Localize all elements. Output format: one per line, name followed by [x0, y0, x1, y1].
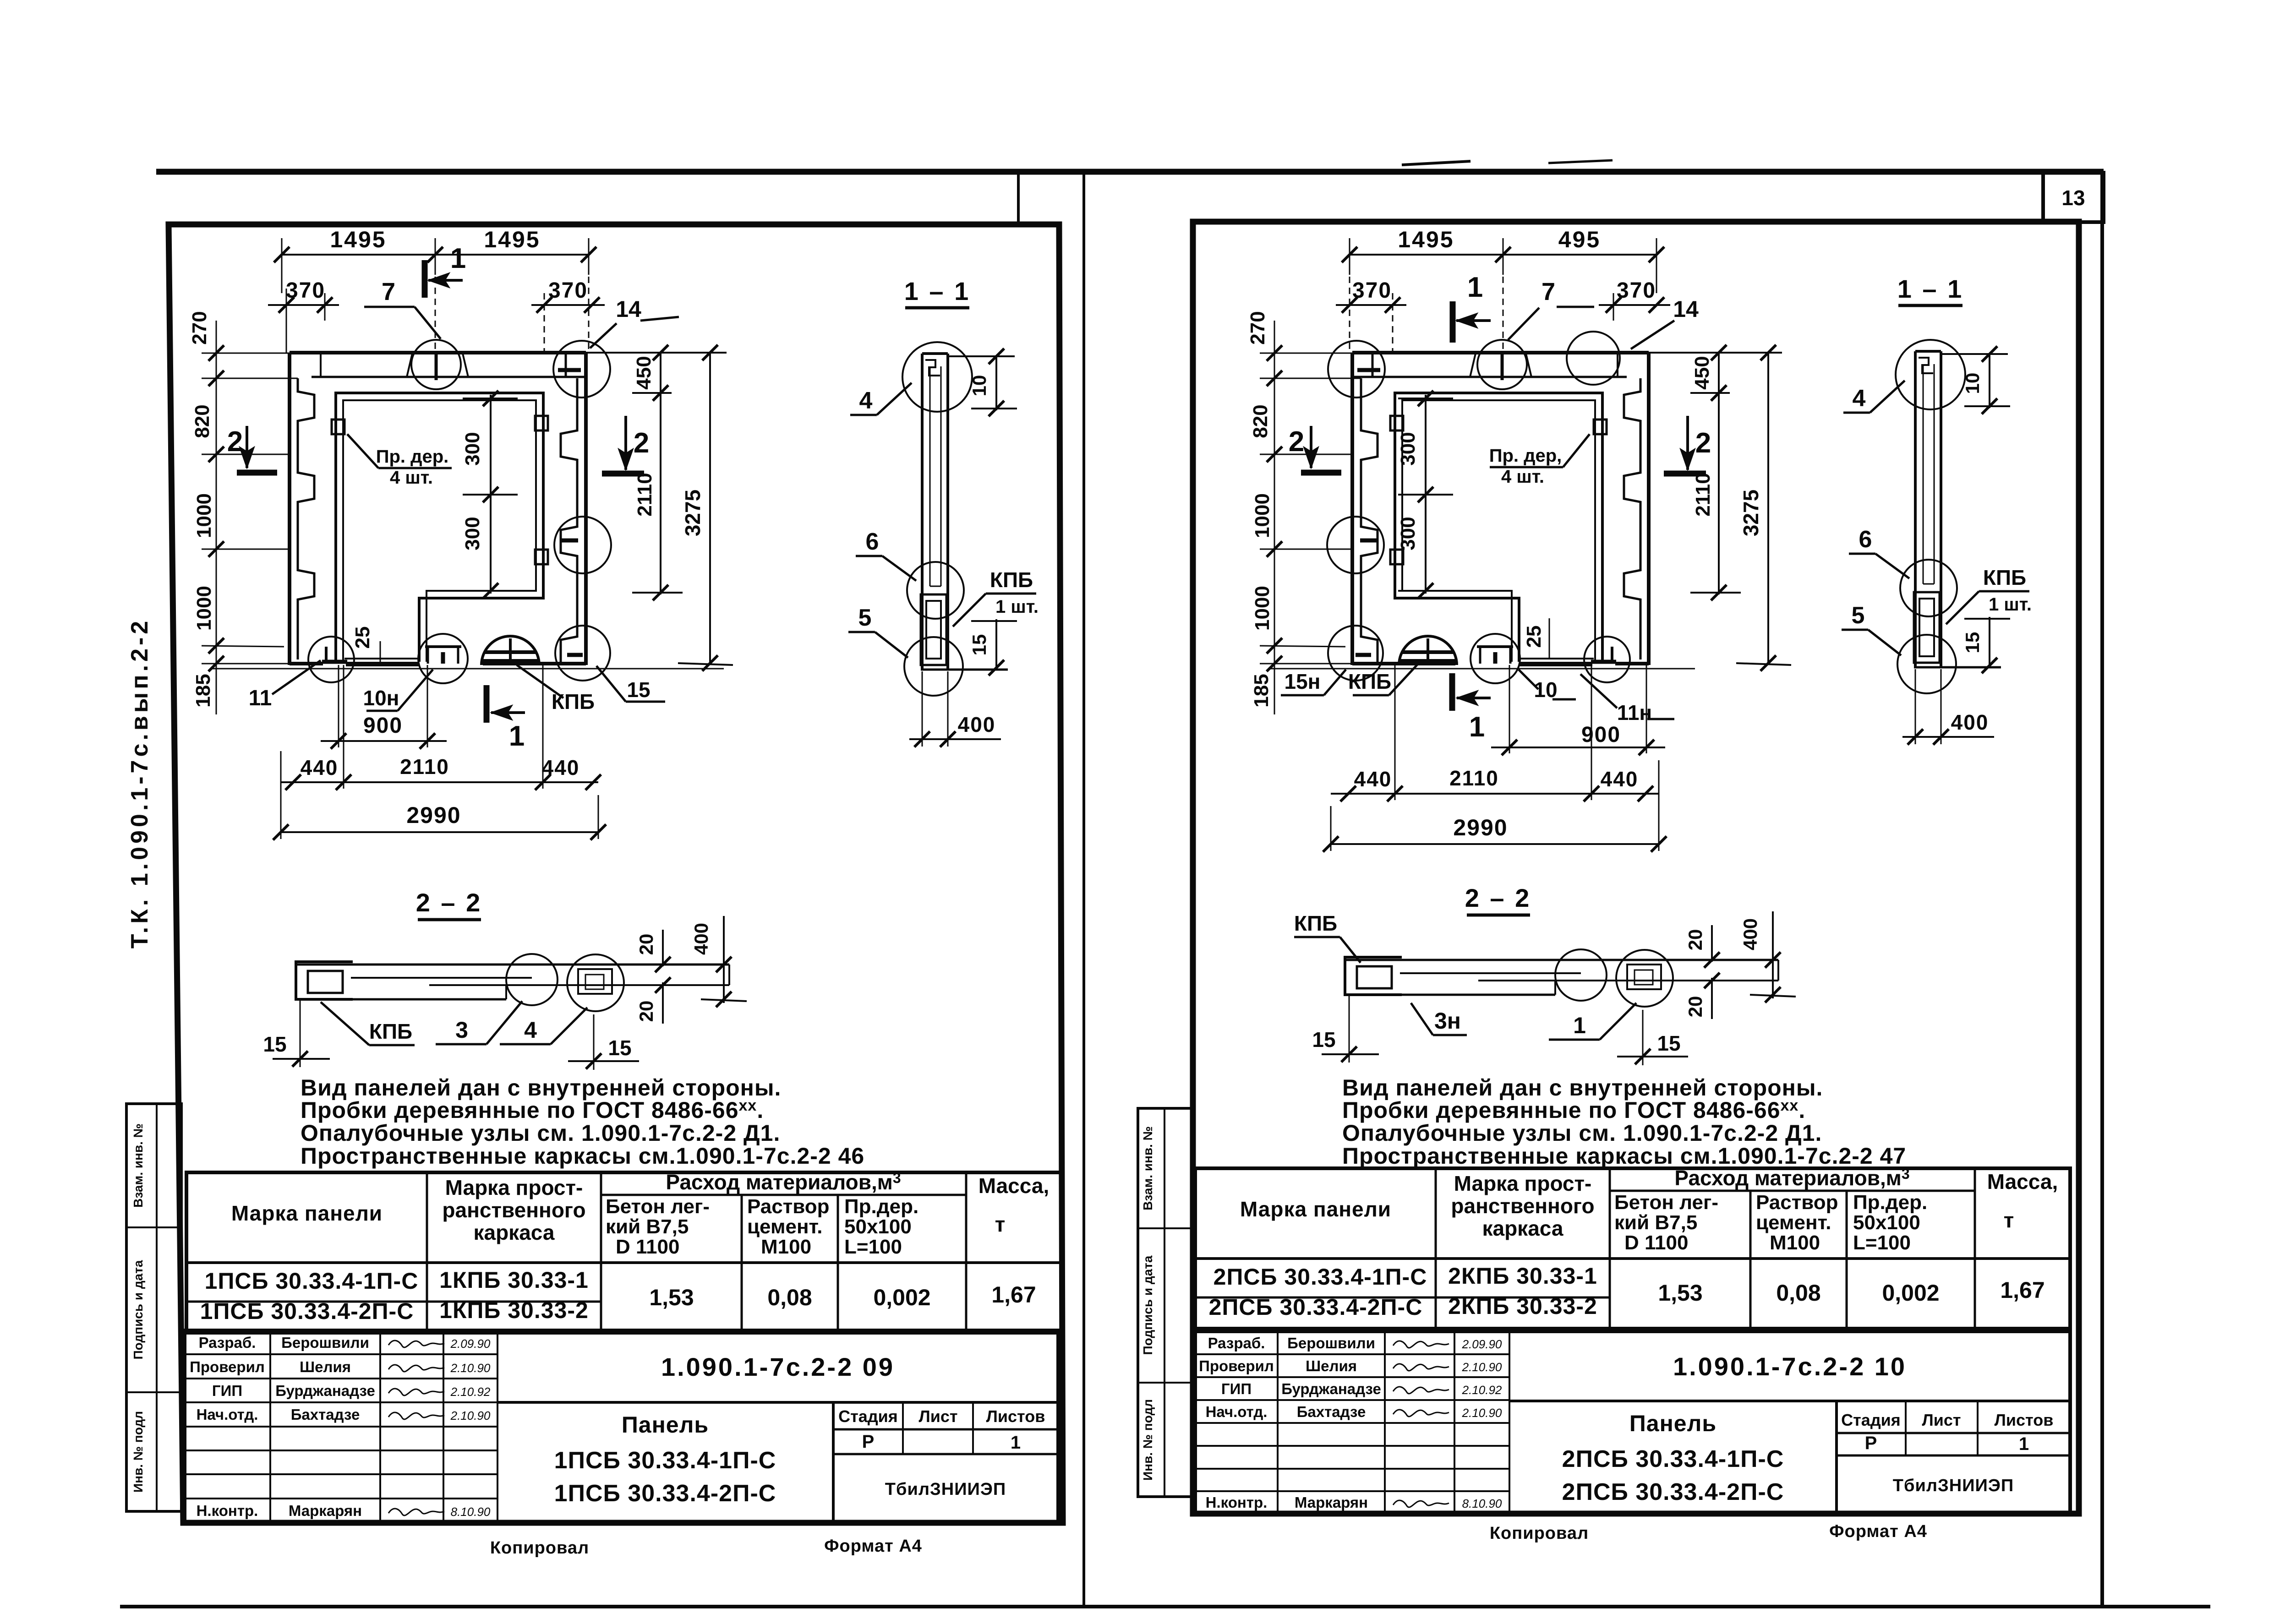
- stadia header cells: [1837, 1432, 2070, 1434]
- panel plan: wood plug top-right: [535, 416, 548, 431]
- svg-text:1: 1: [509, 720, 525, 752]
- svg-text:Проверил: Проверил: [1199, 1357, 1274, 1374]
- svg-text:1ПСБ 30.33.4-1П-С: 1ПСБ 30.33.4-1П-С: [205, 1268, 419, 1294]
- svg-text:1: 1: [1011, 1433, 1021, 1453]
- section 1-1 column outer walls: [921, 354, 924, 670]
- panel plan: opening outer contour: [336, 393, 543, 662]
- title block frame: [185, 1330, 1058, 1522]
- svg-text:3: 3: [455, 1017, 468, 1043]
- dim line 1495+1495 top: [282, 254, 589, 256]
- svg-text:Пр.дер.: Пр.дер.: [844, 1195, 918, 1218]
- svg-text:820: 820: [191, 404, 213, 438]
- dim 10 (section 1-1): [995, 356, 997, 410]
- svg-text:15: 15: [968, 634, 990, 656]
- section 1-1 bottom edge line: [1914, 666, 2001, 669]
- svg-text:25: 25: [351, 627, 374, 649]
- panel plan: corner block bottom-left: [325, 647, 328, 664]
- svg-text:1000: 1000: [1251, 493, 1274, 538]
- dim 370 left: [268, 304, 339, 306]
- svg-text:2990: 2990: [406, 802, 461, 828]
- svg-text:1КПБ 30.33-1: 1КПБ 30.33-1: [439, 1267, 589, 1293]
- svg-text:2.10.90: 2.10.90: [1462, 1406, 1502, 1420]
- section 1-1 KPB insert block: [1914, 592, 1940, 663]
- svg-text:Раствор: Раствор: [747, 1195, 829, 1218]
- left dimension column: [216, 321, 217, 714]
- panel plan: wood plug top-left: [332, 420, 344, 434]
- svg-text:Вид панелей дан с внутренней с: Вид панелей дан с внутренней стороны.: [1342, 1075, 1823, 1101]
- svg-text:8.10.90: 8.10.90: [451, 1505, 491, 1519]
- section mark 1 (bottom): [484, 685, 490, 723]
- section 2-2 bar mid line: [429, 984, 729, 986]
- panel plan: outer left edge: [1647, 353, 1651, 665]
- dim 3275 (right): [709, 353, 711, 665]
- svg-text:L=100: L=100: [1853, 1232, 1911, 1254]
- svg-text:Пр.дер.: Пр.дер.: [1853, 1191, 1927, 1214]
- sheet number box 13: [2043, 173, 2104, 222]
- section 1-1 bottom edge line: [921, 669, 1008, 671]
- svg-text:2ПСБ 30.33.4-1П-С: 2ПСБ 30.33.4-1П-С: [1562, 1446, 1784, 1472]
- materials table horizontals: [1610, 1190, 1975, 1192]
- title block doc cell: [1509, 1400, 2070, 1402]
- dim 2110 (right sheet): [1718, 393, 1720, 594]
- svg-text:Взам. инв. №: Взам. инв. №: [131, 1123, 145, 1208]
- svg-text:2110: 2110: [400, 755, 449, 779]
- title block left verticals: [269, 1330, 271, 1522]
- svg-text:185: 185: [192, 674, 214, 707]
- svg-text:Пр. дер,: Пр. дер,: [1489, 446, 1562, 466]
- svg-text:0,08: 0,08: [1776, 1280, 1820, 1306]
- section 1-1 middle detail circle: [907, 562, 964, 619]
- svg-text:ТбилЗНИИЭП: ТбилЗНИИЭП: [885, 1480, 1006, 1499]
- section 2-2 bar top line: [1345, 959, 1778, 961]
- svg-text:2 – 2: 2 – 2: [416, 888, 482, 917]
- svg-text:Подпись и дата: Подпись и дата: [1141, 1255, 1155, 1355]
- section 1-1 top corner step detail: [1919, 358, 1933, 373]
- svg-text:4: 4: [859, 387, 873, 414]
- dim 2990 (right sheet): [1331, 843, 1659, 845]
- svg-text:2: 2: [1289, 426, 1304, 458]
- svg-text:D 1100: D 1100: [616, 1236, 679, 1258]
- section 1-1 top edge line to dim: [949, 355, 1015, 357]
- svg-text:Берошвили: Берошвили: [281, 1334, 369, 1351]
- svg-text:Бурджанадзе: Бурджанадзе: [1281, 1380, 1381, 1397]
- panel plan: outer right edge: [584, 353, 588, 665]
- dim 2110 (right): [660, 393, 661, 594]
- svg-text:цемент.: цемент.: [1756, 1211, 1831, 1234]
- panel plan: flange marks under detail 7: [407, 354, 412, 377]
- svg-text:10: 10: [968, 375, 990, 397]
- section 1-1 column inner slot: [1923, 364, 1924, 584]
- svg-text:20: 20: [635, 934, 657, 955]
- svg-text:2.10.90: 2.10.90: [450, 1409, 491, 1422]
- svg-text:50х100: 50х100: [1853, 1211, 1920, 1234]
- panel plan: detail circle 18 (right edge): [1327, 517, 1384, 573]
- svg-text:Марка прост-: Марка прост-: [445, 1176, 583, 1199]
- panel plan: inner top flange line: [1352, 376, 1627, 378]
- panel plan: corner circle bottom-right: [555, 626, 610, 681]
- svg-text:25: 25: [1523, 626, 1545, 648]
- svg-text:900: 900: [1581, 723, 1621, 747]
- svg-text:185: 185: [1250, 674, 1273, 707]
- svg-text:Бетон лег-: Бетон лег-: [606, 1195, 710, 1218]
- svg-text:Бетон лег-: Бетон лег-: [1614, 1191, 1718, 1214]
- svg-text:Пространственные каркасы см.1.: Пространственные каркасы см.1.090.1-7с.2…: [301, 1143, 864, 1169]
- panel plan: opening outer contour: [1395, 393, 1602, 662]
- dim 20 lower (2-2): [1711, 978, 1713, 1019]
- svg-text:2ПСБ 30.33.4-2П-С: 2ПСБ 30.33.4-2П-С: [1209, 1294, 1423, 1320]
- panel plan: T-block bottom: [1477, 645, 1513, 648]
- svg-text:кий В7,5: кий В7,5: [606, 1215, 689, 1238]
- svg-text:300: 300: [1397, 517, 1419, 550]
- panel plan: lifting loop bump: [1399, 636, 1457, 665]
- svg-text:Бахтадзе: Бахтадзе: [291, 1406, 360, 1423]
- dim 300/300 (right sheet): [1425, 395, 1427, 594]
- panel plan: right edge joint profile: [561, 378, 577, 662]
- svg-text:Формат А4: Формат А4: [824, 1537, 922, 1556]
- materials table frame: [1195, 1168, 2070, 1329]
- section 2-2 bar mid line: [1478, 980, 1778, 981]
- svg-text:D 1100: D 1100: [1624, 1232, 1688, 1254]
- svg-text:270: 270: [188, 311, 211, 344]
- svg-text:1,67: 1,67: [2000, 1277, 2044, 1303]
- svg-text:20: 20: [1684, 996, 1706, 1018]
- svg-text:Р: Р: [862, 1432, 875, 1452]
- section 1-1 top detail circle: [1896, 340, 1965, 409]
- dim 370 right (right sheet): [1599, 304, 1670, 306]
- svg-text:3275: 3275: [1739, 490, 1763, 536]
- svg-text:11: 11: [249, 686, 272, 710]
- svg-text:1000: 1000: [1251, 586, 1274, 631]
- svg-text:1495: 1495: [330, 227, 386, 252]
- svg-text:440: 440: [1601, 767, 1639, 791]
- svg-text:15: 15: [1962, 632, 1983, 654]
- section 1-1 bottom detail circle: [904, 637, 963, 696]
- svg-text:1495: 1495: [1398, 227, 1454, 252]
- LEFT SHEET frame: [169, 224, 1063, 1523]
- svg-text:L=100: L=100: [844, 1236, 902, 1258]
- dim 15 (section 1-1): [995, 619, 997, 670]
- section 2-2 detail circle B: [567, 954, 624, 1011]
- svg-text:Н.контр.: Н.контр.: [1206, 1494, 1268, 1511]
- svg-text:М100: М100: [761, 1236, 811, 1258]
- svg-text:КПБ: КПБ: [990, 568, 1033, 592]
- svg-text:6: 6: [1859, 526, 1872, 553]
- materials table verticals: [426, 1172, 428, 1333]
- svg-text:Масса,: Масса,: [1987, 1170, 2058, 1193]
- dim 10 (section 1-1): [1989, 354, 1990, 408]
- materials table horizontals: [601, 1194, 966, 1196]
- svg-text:Шелия: Шелия: [1306, 1357, 1357, 1374]
- bottom extension line: [211, 668, 724, 670]
- svg-text:Пробки деревянные по ГОСТ 8486: Пробки деревянные по ГОСТ 8486-66хх.: [301, 1097, 764, 1123]
- panel plan: outer top edge: [1352, 351, 1649, 354]
- svg-text:1: 1: [2019, 1434, 2029, 1454]
- svg-text:0,002: 0,002: [873, 1285, 930, 1310]
- svg-text:450: 450: [1691, 356, 1713, 389]
- svg-text:КПБ: КПБ: [1294, 911, 1337, 935]
- svg-text:370: 370: [548, 278, 588, 303]
- svg-text:2.09.90: 2.09.90: [450, 1337, 491, 1351]
- svg-text:Марка прост-: Марка прост-: [1454, 1172, 1592, 1195]
- svg-text:2.10.90: 2.10.90: [1462, 1360, 1502, 1374]
- svg-text:2КПБ 30.33-2: 2КПБ 30.33-2: [1448, 1293, 1597, 1319]
- svg-text:3н: 3н: [1434, 1008, 1461, 1034]
- svg-text:15: 15: [608, 1036, 631, 1060]
- svg-text:каркаса: каркаса: [1482, 1216, 1563, 1240]
- svg-text:Марка панели: Марка панели: [1240, 1197, 1391, 1221]
- section 2-2 left end block: [1345, 957, 1402, 995]
- panel plan: flange marks under detail 7: [1526, 354, 1531, 377]
- svg-text:2ПСБ 30.33.4-1П-С: 2ПСБ 30.33.4-1П-С: [1214, 1264, 1427, 1290]
- section 2-2 detail circle B: [1616, 950, 1673, 1007]
- svg-text:2КПБ 30.33-1: 2КПБ 30.33-1: [1448, 1263, 1597, 1289]
- svg-text:1 шт.: 1 шт.: [1989, 594, 2032, 615]
- svg-text:т: т: [995, 1212, 1006, 1236]
- svg-text:15: 15: [627, 678, 650, 702]
- svg-text:М100: М100: [1770, 1232, 1820, 1254]
- svg-text:300: 300: [1397, 432, 1419, 465]
- svg-text:2990: 2990: [1453, 815, 1508, 840]
- svg-text:0,002: 0,002: [1882, 1280, 1939, 1306]
- svg-text:ранственного: ранственного: [1451, 1194, 1594, 1218]
- svg-text:1: 1: [1573, 1013, 1586, 1038]
- section 2-2 bar bottom line: [296, 998, 506, 1001]
- dim 440-2110-440 (right sheet): [1331, 793, 1659, 795]
- svg-text:2110: 2110: [634, 473, 656, 516]
- panel plan: right edge joint profile: [1361, 378, 1378, 662]
- svg-text:15: 15: [263, 1032, 286, 1056]
- svg-text:6: 6: [866, 529, 879, 555]
- panel plan: T-block circle: [1470, 634, 1520, 683]
- svg-text:900: 900: [363, 714, 403, 738]
- svg-text:Разраб.: Разраб.: [1208, 1335, 1265, 1352]
- svg-text:400: 400: [1739, 918, 1761, 950]
- svg-text:495: 495: [1558, 227, 1601, 252]
- dim 450 (right): [586, 352, 727, 354]
- panel plan: corner block bottom-left: [1611, 647, 1613, 664]
- title block panel/stadia divider: [1835, 1401, 1838, 1514]
- title block left verticals: [1277, 1331, 1279, 1514]
- panel plan: detail circle 14 (top corner): [1328, 341, 1385, 398]
- svg-text:1.090.1-7с.2-2 09: 1.090.1-7с.2-2 09: [661, 1352, 895, 1381]
- svg-text:Панель: Панель: [1629, 1411, 1716, 1436]
- svg-text:Вид панелей дан с внутренней с: Вид панелей дан с внутренней стороны.: [301, 1075, 781, 1101]
- materials table frame: [186, 1172, 1061, 1333]
- panel plan: bottom edge right segment: [1352, 662, 1455, 665]
- dim 900: [338, 665, 339, 747]
- svg-text:4 шт.: 4 шт.: [390, 468, 433, 488]
- dim 400 (section 1-1): [1915, 669, 1916, 744]
- svg-text:1КПБ 30.33-2: 1КПБ 30.33-2: [439, 1297, 589, 1323]
- panel plan: opening inner contour: [343, 400, 536, 662]
- svg-text:Лист: Лист: [1922, 1411, 1961, 1429]
- svg-text:1: 1: [1467, 272, 1483, 303]
- panel plan: corner circle bottom-right: [1328, 626, 1383, 681]
- svg-text:Листов: Листов: [1995, 1411, 2054, 1429]
- page top scan edge line: [156, 169, 2104, 175]
- svg-text:1,53: 1,53: [1658, 1280, 1702, 1306]
- svg-text:Подпись и дата: Подпись и дата: [131, 1260, 145, 1359]
- svg-text:Листов: Листов: [986, 1407, 1045, 1426]
- dim 3275 (right sheet): [1767, 353, 1769, 665]
- section mark 1 (top): [422, 260, 428, 298]
- svg-text:440: 440: [301, 756, 339, 779]
- dim 2990: [281, 831, 598, 833]
- svg-text:Разраб.: Разраб.: [199, 1334, 256, 1351]
- dim 400 (section 1-1): [922, 671, 923, 747]
- svg-text:1 шт.: 1 шт.: [995, 597, 1039, 617]
- side strip frame: [126, 1104, 181, 1511]
- panel plan: T-block circle: [418, 634, 468, 683]
- svg-text:1 – 1: 1 – 1: [1897, 274, 1964, 303]
- svg-text:Маркарян: Маркарян: [289, 1502, 362, 1519]
- svg-text:370: 370: [1352, 278, 1392, 303]
- svg-text:440: 440: [542, 756, 580, 779]
- svg-text:Пр. дер.: Пр. дер.: [376, 447, 449, 467]
- svg-text:Масса,: Масса,: [979, 1174, 1050, 1198]
- svg-text:2110: 2110: [1449, 766, 1499, 790]
- svg-text:ГИП: ГИП: [1221, 1380, 1252, 1397]
- svg-text:15: 15: [1657, 1031, 1680, 1055]
- materials table verticals: [1435, 1168, 1437, 1329]
- svg-text:4: 4: [524, 1017, 537, 1043]
- svg-text:Расход материалов,м3: Расход материалов,м3: [666, 1170, 901, 1194]
- svg-text:1: 1: [1469, 711, 1485, 743]
- dim 900 (right sheet): [1509, 665, 1510, 753]
- stadia header cells: [833, 1428, 1058, 1431]
- title block left rows: [185, 1353, 497, 1355]
- svg-text:1,53: 1,53: [649, 1285, 694, 1310]
- svg-text:Раствор: Раствор: [1756, 1191, 1838, 1214]
- panel plan: detail circle 7 (top centre): [411, 340, 461, 389]
- svg-text:4 шт.: 4 шт.: [1501, 467, 1544, 487]
- panel plan: inner top flange line: [312, 376, 586, 378]
- svg-text:КПБ: КПБ: [1983, 566, 2026, 589]
- svg-text:Берошвили: Берошвили: [1287, 1335, 1375, 1352]
- section 2-2 insert block detail: [1627, 965, 1661, 989]
- svg-text:270: 270: [1246, 311, 1269, 344]
- svg-text:Бахтадзе: Бахтадзе: [1297, 1403, 1366, 1420]
- svg-text:т: т: [2004, 1208, 2014, 1232]
- svg-text:1000: 1000: [193, 493, 215, 538]
- side strip divider: [156, 1104, 158, 1511]
- svg-text:15н: 15н: [1285, 670, 1321, 693]
- dim 20 upper (2-2): [1711, 925, 1713, 962]
- svg-text:400: 400: [1951, 710, 1989, 734]
- section 2-2 bar inner line: [351, 977, 532, 979]
- svg-text:1495: 1495: [484, 227, 540, 252]
- svg-text:Шелия: Шелия: [300, 1358, 351, 1375]
- svg-text:400: 400: [690, 923, 712, 955]
- svg-text:2.10.92: 2.10.92: [450, 1385, 491, 1399]
- svg-text:2 – 2: 2 – 2: [1465, 883, 1531, 912]
- panel plan: corner circle bottom-left: [308, 637, 354, 682]
- panel plan: wood plug top-left: [1594, 420, 1607, 434]
- section mark 1 bottom (right sheet): [1449, 673, 1455, 711]
- section 2-2 bar top line: [296, 964, 729, 966]
- svg-text:3275: 3275: [681, 490, 705, 536]
- svg-text:кий В7,5: кий В7,5: [1614, 1211, 1697, 1234]
- svg-text:450: 450: [633, 356, 655, 389]
- svg-text:1 – 1: 1 – 1: [904, 277, 971, 305]
- svg-text:КПБ: КПБ: [1348, 670, 1391, 693]
- side strip divider: [1164, 1108, 1165, 1497]
- side strip frame: [1138, 1108, 1193, 1497]
- svg-text:Опалубочные узлы см. 1.090.1-7: Опалубочные узлы см. 1.090.1-7с.2-2 Д1.: [1342, 1120, 1822, 1146]
- dim 20 lower (2-2): [662, 982, 664, 1024]
- section 1-1 top edge line to dim: [1942, 353, 2008, 355]
- bottom extension line (right sheet): [1269, 668, 1695, 670]
- svg-text:2110: 2110: [1692, 473, 1714, 516]
- section 1-1 top detail circle: [902, 342, 972, 412]
- svg-text:1ПСБ 30.33.4-2П-С: 1ПСБ 30.33.4-2П-С: [200, 1298, 414, 1324]
- section 1-1 bottom detail circle: [1897, 635, 1956, 693]
- panel plan: wood plug top-right: [1390, 416, 1403, 431]
- panel plan: detail circle 18 (right edge): [554, 517, 611, 573]
- svg-text:каркаса: каркаса: [473, 1221, 554, 1244]
- svg-text:Т.К. 1.090.1-7с.вып.2-2: Т.К. 1.090.1-7с.вып.2-2: [126, 618, 153, 948]
- svg-text:Пространственные каркасы см.1.: Пространственные каркасы см.1.090.1-7с.2…: [1342, 1143, 1906, 1169]
- svg-text:Копировал: Копировал: [1490, 1524, 1589, 1543]
- panel plan: bottom edge left segment: [1615, 662, 1649, 665]
- panel plan: detail circle 14 (top corner): [553, 341, 610, 398]
- svg-text:15: 15: [1312, 1028, 1335, 1052]
- panel plan: outer top edge: [290, 351, 586, 354]
- panel plan: bottom edge right segment: [483, 662, 586, 665]
- scan smudge top right: [1402, 161, 1470, 165]
- detail circle at top-right (right sheet): [1567, 332, 1620, 385]
- panel plan: bottom edge left segment: [290, 662, 323, 665]
- svg-text:1ПСБ 30.33.4-1П-С: 1ПСБ 30.33.4-1П-С: [554, 1447, 776, 1474]
- svg-text:Нач.отд.: Нач.отд.: [197, 1406, 258, 1423]
- section 1-1 KPB insert block: [921, 594, 946, 665]
- svg-text:14: 14: [1673, 296, 1699, 322]
- panel plan: opening inner contour: [1402, 400, 1595, 662]
- section 2-2 left end block: [296, 962, 353, 999]
- svg-text:8.10.90: 8.10.90: [1462, 1497, 1502, 1510]
- svg-text:Бурджанадзе: Бурджанадзе: [275, 1382, 375, 1399]
- dim 370 left (right sheet): [1336, 304, 1406, 306]
- page bottom scan edge line: [120, 1605, 2210, 1608]
- svg-text:КПБ: КПБ: [369, 1019, 412, 1043]
- svg-text:440: 440: [1354, 767, 1392, 791]
- dim 15 (section 1-1): [1989, 617, 1990, 667]
- dim line 1495+495 top: [1350, 254, 1656, 256]
- title block doc cell: [497, 1401, 1058, 1404]
- section 1-1 top corner step detail: [925, 360, 940, 376]
- svg-text:2.10.92: 2.10.92: [1462, 1383, 1502, 1397]
- svg-text:400: 400: [958, 713, 996, 736]
- svg-text:1ПСБ 30.33.4-2П-С: 1ПСБ 30.33.4-2П-С: [554, 1480, 776, 1507]
- svg-text:Стадия: Стадия: [1841, 1411, 1901, 1429]
- svg-text:300: 300: [461, 517, 484, 550]
- svg-text:Инв. № подл: Инв. № подл: [131, 1411, 145, 1493]
- svg-text:Р: Р: [1865, 1433, 1877, 1453]
- left dimension column (right sheet): [1274, 321, 1275, 714]
- panel plan: lifting loop bump: [481, 636, 539, 665]
- svg-text:Опалубочные узлы см. 1.090.1-7: Опалубочные узлы см. 1.090.1-7с.2-2 Д1.: [301, 1120, 780, 1146]
- svg-text:1000: 1000: [193, 586, 215, 631]
- panel plan: left edge joint profile: [298, 378, 314, 659]
- svg-text:Взам. инв. №: Взам. инв. №: [1141, 1126, 1155, 1210]
- dim 450 (right sheet): [1352, 352, 1782, 354]
- title block frame: [1195, 1331, 2070, 1514]
- panel plan: wood plug bottom-right: [1390, 550, 1403, 564]
- svg-text:2.09.90: 2.09.90: [1462, 1337, 1502, 1351]
- svg-text:10: 10: [1962, 373, 1983, 394]
- section 1-1 column inner slot: [929, 366, 931, 586]
- svg-text:Пробки деревянные по ГОСТ 8486: Пробки деревянные по ГОСТ 8486-66хх.: [1342, 1097, 1805, 1123]
